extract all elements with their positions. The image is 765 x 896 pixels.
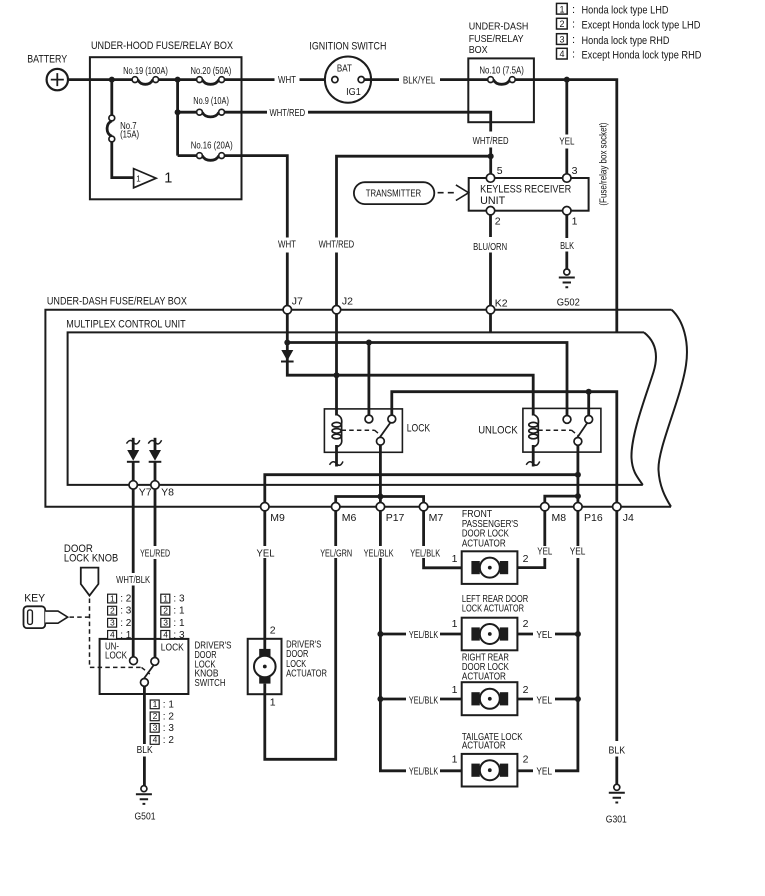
fuse No.10 (7.5A) xyxy=(468,64,524,84)
wire junction down to fuse7 and fuse16 xyxy=(112,80,178,178)
wire fp actuator pin2 to M8 YEL xyxy=(517,511,544,568)
svg-text:: 2: : 2 xyxy=(163,735,175,746)
diode D3 on Y8 line xyxy=(148,438,161,481)
svg-text:2: 2 xyxy=(153,711,158,721)
svg-text:BAT: BAT xyxy=(337,62,352,74)
under-hood fuse/relay box xyxy=(90,40,242,199)
svg-text:1: 1 xyxy=(164,171,172,187)
svg-text:5: 5 xyxy=(497,165,503,177)
svg-text:3: 3 xyxy=(572,165,578,177)
fuse No.16 (20A) xyxy=(178,140,233,161)
svg-text:BLU/ORN: BLU/ORN xyxy=(473,241,507,253)
node battery feed junction xyxy=(109,77,115,83)
svg-text:G301: G301 xyxy=(606,813,627,825)
svg-text:: 2: : 2 xyxy=(163,711,175,722)
svg-text:No.10 (7.5A): No.10 (7.5A) xyxy=(479,64,524,76)
svg-text:2: 2 xyxy=(110,605,115,615)
svg-text:YEL/BLK: YEL/BLK xyxy=(409,766,438,778)
wire diode to y375 rail, to unlock coil xyxy=(287,362,533,416)
svg-text:UNDER-HOOD FUSE/RELAY BOX: UNDER-HOOD FUSE/RELAY BOX xyxy=(91,40,234,52)
svg-text:YEL: YEL xyxy=(559,136,574,148)
wire LOCK common down to P17 xyxy=(379,445,382,503)
svg-text:4: 4 xyxy=(110,630,115,640)
under-dash fuse/relay box (top) xyxy=(468,20,534,122)
wire fuse9 WHT/RED to corner, down to keyless receiver xyxy=(225,112,491,173)
svg-text:: 1: : 1 xyxy=(173,606,185,617)
svg-text:(Fuse/relay box socket): (Fuse/relay box socket) xyxy=(598,123,610,206)
terminal M8 xyxy=(541,503,549,511)
svg-text:3: 3 xyxy=(163,618,168,628)
terminal P17 xyxy=(376,503,384,511)
svg-text:WHT/BLK: WHT/BLK xyxy=(116,574,150,586)
legend item 1 Honda lock type LHD xyxy=(557,3,669,16)
svg-text:2: 2 xyxy=(523,754,529,766)
wire J2 down to lock coil xyxy=(335,314,338,416)
svg-text:ACTUATOR: ACTUATOR xyxy=(462,537,506,549)
wire bus M8 to unlock common xyxy=(545,496,578,502)
svg-text:KEYLESS RECEIVER: KEYLESS RECEIVER xyxy=(480,184,571,196)
svg-text:1: 1 xyxy=(452,618,458,630)
svg-text:KEY: KEY xyxy=(24,592,46,604)
driver's door lock knob switch xyxy=(100,639,189,694)
svg-text:WHT: WHT xyxy=(278,238,296,250)
wire fuse20 to ignition switch, WHT label xyxy=(225,78,332,81)
svg-text:: 1: : 1 xyxy=(120,630,132,641)
ignition switch xyxy=(309,40,386,102)
node YEL tap xyxy=(564,77,570,83)
left rear door lock actuator M3 xyxy=(462,593,529,651)
wire BLK pin1 to ground xyxy=(565,215,568,269)
wire YEL to receiver pin 3 xyxy=(565,80,568,174)
svg-text:K2: K2 xyxy=(495,298,508,310)
key symbol xyxy=(24,592,68,628)
svg-text:TRANSMITTER: TRANSMITTER xyxy=(366,188,422,200)
svg-text:BLK: BLK xyxy=(137,744,153,756)
terminal P16 xyxy=(574,503,582,511)
svg-text:4: 4 xyxy=(163,630,168,640)
svg-text:BATTERY: BATTERY xyxy=(27,53,68,65)
wire tailgate to P16 YEL xyxy=(517,769,533,772)
terminal Y8 xyxy=(151,481,159,489)
label driver's door lock knob switch xyxy=(195,640,232,690)
svg-text:2: 2 xyxy=(523,618,529,630)
svg-text:1: 1 xyxy=(452,754,458,766)
svg-text:J2: J2 xyxy=(342,296,353,308)
svg-text:No.20 (50A): No.20 (50A) xyxy=(191,65,232,77)
svg-text:WHT/RED: WHT/RED xyxy=(319,238,355,250)
diode D2 on Y7 line xyxy=(127,438,140,481)
svg-text:M6: M6 xyxy=(342,512,357,524)
front passenger's door lock actuator M2 xyxy=(462,508,519,584)
svg-text:4: 4 xyxy=(560,49,565,59)
svg-text:1: 1 xyxy=(110,593,115,603)
svg-text:1: 1 xyxy=(572,216,578,228)
svg-text:1: 1 xyxy=(452,684,458,696)
svg-text:4: 4 xyxy=(153,735,158,745)
svg-text:LOCK ACTUATOR: LOCK ACTUATOR xyxy=(462,602,524,614)
wire Y7 WHT/BLK down to knob switch xyxy=(132,489,135,657)
svg-text:No.16 (20A): No.16 (20A) xyxy=(191,140,233,152)
diode D1 on J7 line xyxy=(281,349,294,362)
svg-text:M9: M9 xyxy=(270,512,285,524)
svg-text:2: 2 xyxy=(523,553,529,565)
dashed RF arrow xyxy=(438,185,469,201)
svg-text:IG1: IG1 xyxy=(346,86,361,98)
keyless receiver unit U1 xyxy=(469,178,589,211)
wire bus M9 to unlock common xyxy=(265,475,578,503)
fuse No.7 (15A) vertical xyxy=(107,115,139,142)
fuse No.19 (100A) xyxy=(123,65,168,84)
svg-text:YEL/BLK: YEL/BLK xyxy=(364,548,394,560)
wire M7 YEL/BLK to front passenger actuator xyxy=(424,511,462,568)
svg-text:Except Honda lock type LHD: Except Honda lock type LHD xyxy=(582,19,701,31)
svg-text::: : xyxy=(572,19,575,31)
svg-text:: 3: : 3 xyxy=(173,594,185,605)
svg-text:YEL: YEL xyxy=(257,548,275,560)
wire switch common BLK to ground xyxy=(143,686,146,786)
wire UNLOCK common down to P16 xyxy=(577,445,580,503)
relay LOCK xyxy=(324,409,430,467)
wire fuse16 WHT down to J7 xyxy=(225,156,288,306)
wire actuator pin1 loop to M6 YEL/GRN xyxy=(265,511,336,759)
svg-text:BLK: BLK xyxy=(560,240,574,252)
svg-text:ACTUATOR: ACTUATOR xyxy=(462,671,506,683)
svg-text:: 3: : 3 xyxy=(163,723,175,734)
svg-text:YEL: YEL xyxy=(536,629,552,641)
wire relay NO contacts to ground rail y392 to J4 xyxy=(392,392,617,503)
svg-text::: : xyxy=(572,49,575,61)
svg-text:P16: P16 xyxy=(584,512,603,524)
terminal M6 xyxy=(332,503,340,511)
svg-text:2: 2 xyxy=(495,216,501,228)
svg-text:YEL/RED: YEL/RED xyxy=(140,548,170,560)
svg-text:G502: G502 xyxy=(557,296,580,308)
svg-text:FUSE/RELAY: FUSE/RELAY xyxy=(469,33,524,45)
svg-text:UNDER-DASH FUSE/RELAY BOX: UNDER-DASH FUSE/RELAY BOX xyxy=(47,296,188,308)
wire battery to fuse box xyxy=(68,78,132,81)
legend item 3 Honda lock type RHD xyxy=(557,34,670,47)
svg-text:No.19 (100A): No.19 (100A) xyxy=(123,65,168,77)
node J2 joins rail xyxy=(334,372,340,378)
svg-text:J4: J4 xyxy=(623,512,634,524)
wire right rear to P16 YEL xyxy=(517,698,578,701)
pin 5 xyxy=(486,174,494,182)
svg-text:YEL/BLK: YEL/BLK xyxy=(409,629,438,641)
svg-text:P17: P17 xyxy=(386,512,405,524)
svg-text:1: 1 xyxy=(153,699,158,709)
wire J7 down with node xyxy=(286,314,289,349)
wire BLU/ORN pin2 to K2 xyxy=(489,215,492,306)
svg-text:1: 1 xyxy=(452,553,458,565)
svg-text:YEL: YEL xyxy=(570,546,586,558)
dashed mechanical links knob/key to switch xyxy=(90,599,150,675)
under-dash fuse/relay box (outer, torn right edge) xyxy=(45,296,687,507)
svg-text:: 2: : 2 xyxy=(120,618,132,629)
wire rail +B to relay contacts xyxy=(287,343,567,416)
svg-text:1: 1 xyxy=(270,697,276,709)
pin table right (lock side) xyxy=(161,593,185,641)
svg-text:UNDER-DASH: UNDER-DASH xyxy=(469,20,529,32)
svg-text:Y8: Y8 xyxy=(161,487,174,499)
svg-text:3: 3 xyxy=(110,618,115,628)
svg-text:WHT/RED: WHT/RED xyxy=(473,135,509,147)
svg-text:: 3: : 3 xyxy=(173,630,185,641)
svg-text:J7: J7 xyxy=(292,296,303,308)
driver's door lock actuator M1 xyxy=(248,638,328,694)
legend item 4 Except Honda lock type RHD xyxy=(557,48,702,61)
svg-text:UNLOCK: UNLOCK xyxy=(478,424,518,436)
door lock knob symbol xyxy=(64,543,118,596)
svg-text:LOCK: LOCK xyxy=(105,650,127,662)
svg-text:1: 1 xyxy=(136,174,141,183)
wire tailgate branch YEL/BLK xyxy=(440,769,462,772)
svg-text:YEL: YEL xyxy=(536,694,552,706)
fuse No.20 (50A) xyxy=(191,65,232,84)
wire P17 YEL/BLK trunk down xyxy=(380,511,406,771)
svg-text:Honda lock type LHD: Honda lock type LHD xyxy=(582,5,669,17)
wire ignition to under-dash box, BLK/YEL label xyxy=(364,78,468,81)
svg-text:BLK: BLK xyxy=(609,744,626,756)
svg-text:YEL: YEL xyxy=(537,546,552,558)
terminal J4 xyxy=(613,503,621,511)
svg-text:2: 2 xyxy=(523,684,529,696)
terminal K2 xyxy=(486,306,494,314)
wire K2 down to multiplex xyxy=(489,314,492,332)
terminal J2 xyxy=(332,306,340,314)
svg-text:LOCK: LOCK xyxy=(161,642,184,654)
svg-text:IGNITION SWITCH: IGNITION SWITCH xyxy=(309,40,386,52)
node fuse junction xyxy=(175,77,181,83)
svg-text:1: 1 xyxy=(560,4,565,14)
node WHT/RED junction above pin 5 xyxy=(488,153,494,159)
svg-text:1: 1 xyxy=(163,593,168,603)
relay UNLOCK xyxy=(478,408,601,466)
svg-text:3: 3 xyxy=(560,35,565,45)
svg-text:SWITCH: SWITCH xyxy=(195,677,226,689)
pin 3 xyxy=(563,174,571,182)
svg-text:: 1: : 1 xyxy=(163,699,175,710)
svg-text:M7: M7 xyxy=(429,512,444,524)
svg-text:ACTUATOR: ACTUATOR xyxy=(462,739,506,751)
svg-text::: : xyxy=(572,34,575,46)
ground G502 xyxy=(557,269,580,308)
svg-text:YEL/GRN: YEL/GRN xyxy=(320,548,352,560)
svg-text:2: 2 xyxy=(560,19,565,29)
wire J4 BLK down to ground xyxy=(615,511,618,784)
svg-text:ACTUATOR: ACTUATOR xyxy=(286,667,327,679)
svg-text:2: 2 xyxy=(163,605,168,615)
wire bus M6-M7 under lock common xyxy=(336,497,424,503)
svg-text::: : xyxy=(572,4,575,16)
svg-text:3: 3 xyxy=(153,723,158,733)
svg-text:BLK/YEL: BLK/YEL xyxy=(403,75,436,87)
svg-text:: 1: : 1 xyxy=(173,618,185,629)
svg-text:YEL: YEL xyxy=(536,766,552,778)
svg-text:: 3: : 3 xyxy=(120,606,132,617)
svg-text:UNIT: UNIT xyxy=(480,195,505,207)
wire fuse10 out to right corner, down to multiplex box top xyxy=(515,80,617,332)
svg-text:LOCK KNOB: LOCK KNOB xyxy=(64,552,118,564)
pin 2 xyxy=(486,207,494,215)
tailgate lock actuator M5 xyxy=(462,731,523,787)
svg-text:Honda lock type RHD: Honda lock type RHD xyxy=(582,35,670,47)
pin 1 xyxy=(563,207,571,215)
svg-text:YEL/BLK: YEL/BLK xyxy=(410,548,440,560)
svg-text:No.9 (10A): No.9 (10A) xyxy=(193,95,229,107)
svg-text:WHT/RED: WHT/RED xyxy=(270,107,306,119)
svg-text:LOCK: LOCK xyxy=(407,423,431,435)
svg-text:BOX: BOX xyxy=(469,44,488,56)
battery B1 xyxy=(27,53,68,90)
svg-text:WHT: WHT xyxy=(278,74,296,86)
svg-text:Except Honda lock type RHD: Except Honda lock type RHD xyxy=(582,49,702,61)
wire UNLOCK right contact up xyxy=(587,392,590,416)
fuse No.9 (10A) xyxy=(178,95,229,117)
transmitter xyxy=(354,182,434,204)
wire left rear to P16 YEL xyxy=(517,633,578,636)
svg-text:YEL/BLK: YEL/BLK xyxy=(409,694,438,706)
wire LOCK relay left contact feed xyxy=(367,343,370,416)
node fuse9 tap xyxy=(175,109,181,115)
svg-text:2: 2 xyxy=(270,625,276,637)
svg-text:M8: M8 xyxy=(552,512,567,524)
wire M9 YEL down to driver's actuator xyxy=(263,511,266,649)
svg-text:(15A): (15A) xyxy=(120,129,139,141)
op-amp style driver triangle 1 xyxy=(134,169,173,188)
svg-text:: 2: : 2 xyxy=(120,594,132,605)
terminal M7 xyxy=(419,503,427,511)
wire rail y156 to J2 corner xyxy=(337,156,491,305)
wire P16 YEL trunk down xyxy=(555,511,578,771)
wire left rear branch YEL/BLK xyxy=(380,633,461,636)
legend item 2 Except Honda lock type LHD xyxy=(557,18,701,31)
svg-text:MULTIPLEX CONTROL UNIT: MULTIPLEX CONTROL UNIT xyxy=(66,319,186,331)
terminal M9 xyxy=(261,503,269,511)
pin table left (unlock side) xyxy=(108,593,132,641)
svg-text:G501: G501 xyxy=(135,811,156,823)
terminal Y7 xyxy=(129,481,137,489)
ground G501 xyxy=(135,786,156,823)
right rear door lock actuator M4 xyxy=(462,652,518,716)
svg-text:Y7: Y7 xyxy=(139,487,152,499)
wire right rear branch YEL/BLK xyxy=(380,698,461,701)
multiplex control unit box (inner, torn right edge) xyxy=(66,319,656,485)
pin table bottom (common) xyxy=(150,699,174,746)
wire Y8 YEL/RED down to knob switch xyxy=(154,489,157,658)
wire fuse19 to fuse20 xyxy=(159,78,197,81)
terminal J7 xyxy=(283,306,291,314)
ground G301 xyxy=(606,784,627,825)
